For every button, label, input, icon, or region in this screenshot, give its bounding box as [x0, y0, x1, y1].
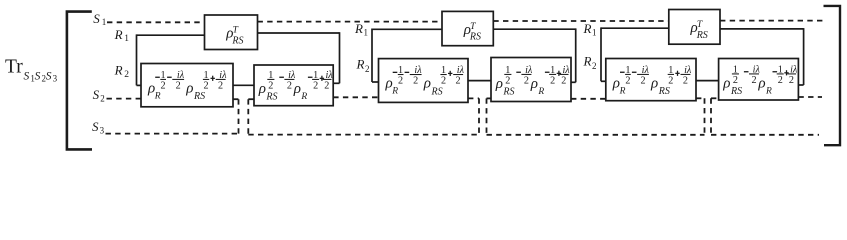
wire block1 right vertical: [339, 32, 341, 83]
wire S dashed stub left of box2 block1: [248, 98, 254, 100]
formula rho_RS^T block2: [463, 22, 481, 43]
wire S1 dashed segment 3: [493, 20, 669, 22]
formula rho_RS^T block3: [690, 20, 708, 41]
wire S2 dashed between block1 and block2: [333, 96, 378, 98]
svg-text:S: S: [93, 87, 100, 102]
wire S dashed stub right of box1 block1: [233, 98, 239, 100]
formula rho_RS^(1/2-il/2) rho_R^(-1/2+il/2) block3: [722, 64, 798, 97]
wire S1 dashed segment 1: [107, 21, 205, 23]
svg-text:R: R: [583, 21, 592, 36]
wire S3 dashed segment 2: [248, 134, 479, 136]
svg-text:S: S: [93, 11, 100, 26]
wire S dashed stub right of box1 block2: [468, 97, 479, 99]
wire R2 block1 left stub: [137, 84, 142, 86]
wire S dashed vertical 2 block1: [247, 99, 249, 134]
wire R1-R2 block2 left vertical: [371, 29, 373, 83]
formula rho_RS^T block1: [225, 25, 243, 46]
wire S2 dashed right end: [798, 96, 822, 98]
wire R2 block1 connector: [233, 84, 255, 86]
svg-text:2: 2: [100, 94, 105, 104]
formula rho_R^(-1/2-il/2) rho_RS^(1/2+il/2) block1: [147, 70, 227, 102]
formula rho_RS^(1/2-il/2) rho_R^(-1/2+il/2) block1: [258, 70, 334, 103]
wire S1 dashed segment 2: [258, 21, 443, 23]
svg-text:2: 2: [592, 61, 597, 71]
box rho_RS^T block2 (T2): [442, 11, 493, 45]
wire block2 right stub: [571, 81, 576, 83]
svg-text:2: 2: [365, 64, 370, 74]
left bracket: [67, 12, 92, 150]
wire R2 block2 left stub: [372, 81, 379, 83]
box rho_RS^T block1 (T1): [205, 15, 258, 50]
wire R1-R2 block1 left vertical: [136, 34, 138, 85]
formula rho_R^(-1/2-il/2) rho_RS^(1/2+il/2) block2: [385, 65, 465, 97]
right bracket: [824, 6, 841, 145]
wire R1 block3 right horizontal: [720, 28, 804, 30]
svg-text:S: S: [92, 119, 99, 134]
box rho_RS^T block3 (T3): [669, 10, 720, 45]
svg-text:2: 2: [124, 70, 129, 80]
svg-text:1: 1: [592, 27, 597, 37]
svg-text:1: 1: [364, 28, 369, 38]
formula rho_R^(-1/2-il/2) rho_RS^(1/2+il/2) block3: [612, 65, 692, 97]
wire R2 block2 connector: [468, 80, 492, 82]
svg-text:3: 3: [53, 73, 58, 83]
wire block3 right stub: [798, 84, 803, 86]
svg-text:Tr: Tr: [5, 57, 23, 78]
svg-text:S: S: [35, 70, 41, 82]
svg-text:R: R: [114, 62, 123, 77]
svg-text:R: R: [583, 54, 592, 69]
svg-text:1: 1: [124, 34, 129, 44]
wire S3 dashed segment 4: [711, 134, 819, 136]
svg-text:3: 3: [100, 125, 105, 135]
wire R1 block2 left horizontal: [372, 28, 442, 30]
wire S dashed vertical 1 block1: [238, 99, 240, 133]
wire R1 block1 left horizontal: [137, 34, 205, 36]
wire S dashed vertical 2 block3: [710, 98, 712, 135]
wire S dashed stub right of box1 block3: [696, 97, 705, 99]
wire S dashed vertical 1 block2: [478, 98, 480, 134]
wire S1 dashed segment 4: [720, 20, 826, 22]
svg-text:S: S: [46, 70, 52, 82]
wire S dashed stub left of box2 block2: [487, 97, 492, 99]
wire R2 block3 connector: [696, 80, 719, 82]
box rho_R^-1/2-il/2 rho_RS^1/2+il/2 block2 (U3): [379, 59, 469, 103]
wire S2 dashed into box1 block1: [107, 98, 142, 100]
wire R1 block1 right horizontal: [258, 32, 340, 34]
svg-text:S: S: [24, 70, 30, 82]
svg-text:R: R: [114, 27, 123, 42]
wire S dashed vertical 1 block3: [704, 98, 706, 135]
wire R1 block3 left horizontal: [601, 27, 669, 29]
wire R1 block2 right horizontal: [493, 28, 575, 30]
svg-text:1: 1: [102, 17, 107, 27]
wire S dashed stub left of box2 block3: [711, 97, 719, 99]
svg-text:R: R: [354, 21, 363, 36]
wire S dashed vertical 2 block2: [486, 98, 488, 134]
formula rho_RS^(1/2-il/2) rho_R^(-1/2+il/2) block2: [495, 65, 571, 98]
wire block1 right stub: [333, 82, 339, 84]
wire S2 dashed between block2 and block3: [571, 98, 606, 100]
wire R1-R2 block3 left vertical: [600, 27, 602, 81]
box rho_RS^1/2-il/2 rho_R^-1/2+il/2 block1 (U2): [254, 65, 333, 106]
wire S3 dashed segment 3: [487, 134, 705, 136]
wire block3 right vertical: [803, 28, 805, 85]
wire block2 right vertical: [575, 28, 577, 82]
box rho_RS^1/2-il/2 rho_R^-1/2+il/2 block2 (U4): [491, 58, 571, 102]
svg-text:R: R: [356, 57, 365, 72]
wire R2 block3 left stub: [601, 80, 606, 82]
wire S3 dashed segment 1: [106, 133, 239, 135]
box rho_RS^1/2-il/2 rho_R^-1/2+il/2 block3 (U6): [719, 59, 799, 101]
box rho_R^-1/2-il/2 rho_RS^1/2+il/2 block3 (U5): [606, 59, 696, 101]
box rho_R^-1/2-il/2 rho_RS^1/2+il/2 block1 (U1): [141, 64, 233, 107]
